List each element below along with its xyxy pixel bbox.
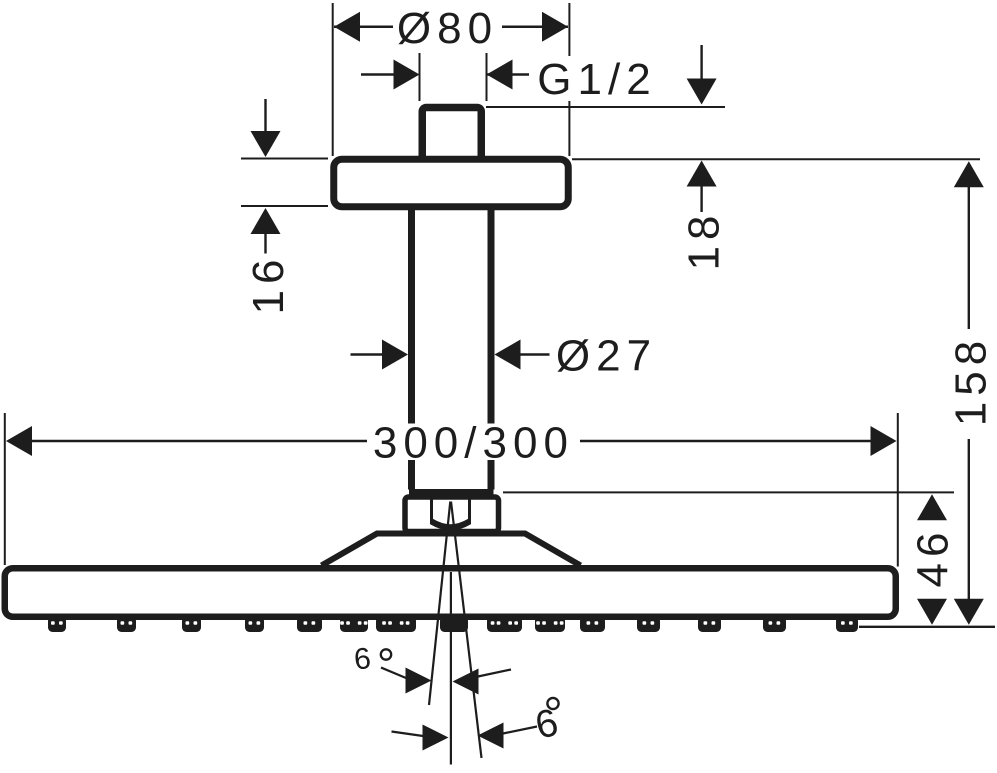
- dim27 line left: [351, 353, 385, 356]
- dim46 top reference line: [503, 491, 954, 493]
- dim80 left extension line: [332, 3, 334, 156]
- dim158 arrow down: [954, 599, 984, 625]
- dim27 arrow right: [495, 340, 521, 370]
- dim158 upper stem: [968, 187, 970, 330]
- inner cup bottom arc: [432, 522, 470, 528]
- dim300 line left: [32, 440, 367, 443]
- dim46 arrow down: [917, 599, 947, 625]
- dimG12 arrow left: [394, 60, 420, 90]
- trapezoid mount: [322, 534, 581, 566]
- dim18 lower stem: [700, 187, 702, 213]
- inlet nut: [405, 497, 499, 532]
- dim80 arrow left: [334, 12, 360, 42]
- degree circle lower: [547, 698, 558, 709]
- dim16 lower stem: [264, 234, 266, 254]
- dimG12 line right: [487, 73, 530, 76]
- dim300 left extension line: [4, 413, 6, 565]
- dim80 line left: [334, 25, 393, 28]
- svg-text:300/300: 300/300: [373, 419, 574, 468]
- leader lower-left: [392, 732, 424, 737]
- nozzle outlet dots: [51, 621, 55, 624]
- dim80 right extension line: [568, 3, 570, 156]
- angle arrow lower-right: [478, 723, 504, 749]
- dim80 arrow right: [542, 12, 568, 42]
- shower head body: [5, 568, 896, 617]
- dim16 arrow up: [251, 208, 281, 234]
- dimG12 right extension line: [486, 53, 488, 101]
- dimG12 left extension line: [419, 53, 421, 101]
- dim46/158 bottom reference line: [859, 626, 995, 628]
- angle arrow upper-left: [406, 668, 432, 694]
- pipe left wall: [408, 205, 415, 490]
- angle arrow upper-right: [453, 669, 479, 695]
- dim300 line right: [580, 440, 871, 443]
- svg-text:Ø27: Ø27: [556, 332, 657, 381]
- dim158 lower stem: [968, 439, 970, 600]
- dim18 arrow down: [687, 79, 717, 105]
- dim80 line right: [502, 25, 568, 28]
- svg-text:18: 18: [680, 210, 729, 271]
- svg-text:6: 6: [352, 642, 372, 677]
- center axis line: [450, 572, 452, 765]
- dim18 arrow up: [687, 161, 717, 187]
- svg-text:158: 158: [947, 335, 996, 426]
- leader upper-left: [381, 668, 406, 679]
- inner cup left wall: [430, 500, 433, 525]
- left spray angle line: [429, 502, 450, 706]
- G1/2 connector stub: [422, 108, 481, 168]
- dim18 upper stem: [700, 45, 702, 80]
- svg-text:46: 46: [909, 527, 958, 588]
- dim46 arrow up: [917, 494, 947, 520]
- dim16 bottom reference line: [241, 205, 328, 207]
- leader lower-right: [503, 727, 537, 734]
- dim16 top reference line: [241, 158, 328, 160]
- svg-text:G1/2: G1/2: [537, 55, 656, 104]
- nozzle row: [48, 617, 66, 633]
- svg-text:Ø80: Ø80: [397, 4, 498, 53]
- dimG12 line left: [361, 73, 395, 76]
- dim300 arrow left: [6, 426, 32, 456]
- leader upper-right: [478, 670, 511, 677]
- dim300 arrow right: [871, 426, 897, 456]
- right spray angle line: [451, 502, 482, 759]
- dim158 arrow up: [954, 161, 984, 187]
- pipe end cap: [409, 489, 494, 495]
- degree circle upper: [381, 649, 391, 659]
- halo band for 300/300 text: [366, 424, 581, 461]
- dim27 arrow left: [382, 340, 408, 370]
- svg-text:16: 16: [244, 254, 293, 315]
- dim16 upper stem: [264, 99, 266, 131]
- dim300 right extension line: [897, 413, 899, 567]
- dim18 top reference line: [486, 106, 725, 108]
- dim18/158 reference line: [572, 158, 980, 160]
- pipe right wall: [488, 205, 495, 490]
- halo for G1/2: [531, 56, 659, 101]
- dimG12 arrow right: [487, 60, 513, 90]
- angle arrow lower-left: [423, 725, 449, 751]
- dim27 line right: [520, 353, 550, 356]
- dim16 arrow down: [251, 131, 281, 157]
- ceiling plate: [334, 159, 569, 207]
- inner cup right wall: [468, 500, 471, 525]
